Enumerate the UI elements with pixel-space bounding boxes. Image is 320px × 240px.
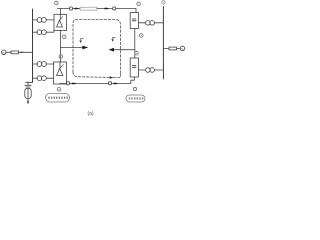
dashed DC loop (control boundary) <box>73 20 121 78</box>
label badge 1 (top of right bus) <box>162 1 165 4</box>
label badge 9 (above U3) <box>137 2 141 6</box>
transformer T3 (left lower branch 1) <box>33 62 54 67</box>
converter U1 (left upper box) <box>54 14 67 30</box>
arrow P1 (left power-flow arrow) <box>61 46 89 50</box>
AC source G2 (right) <box>180 46 185 51</box>
label badge 3 (above U1) <box>55 1 59 5</box>
wire: DC top line riser from U1 <box>57 9 69 15</box>
label badge 10 (below U3) <box>140 34 144 38</box>
label badge 7 (above left control device) <box>57 88 61 92</box>
breaker box S2 (right source) <box>169 47 177 50</box>
arrowhead on dashed loop (bottom) <box>110 76 114 78</box>
label badge 2 (below U1) <box>62 35 66 39</box>
caption (a) <box>87 111 93 117</box>
wire: series link between U3 and U4 <box>134 29 136 59</box>
wire: DC bottom line from U2 <box>60 83 66 86</box>
label badge 8 (above right control device) <box>133 87 136 90</box>
transformer T5 (right upper branch) <box>139 21 164 26</box>
wire: DC top line to converter U3 <box>116 9 136 13</box>
label badge 6 (above U4) <box>135 51 139 55</box>
node N1 (circle on DC top line) <box>69 7 72 10</box>
wire: series link between U1 and U2 <box>60 31 62 63</box>
transformer T4 (left lower branch 2) <box>33 76 54 81</box>
wire left source to bus B1 <box>6 51 32 53</box>
AC source G1 (left) <box>2 50 7 55</box>
hook arrow H1 (left dashed branch) <box>80 38 84 42</box>
bus B2 (right AC bus) <box>162 7 164 80</box>
wire right source to bus B2 <box>163 48 180 50</box>
breaker box S1 (left source) <box>11 51 19 54</box>
transformer T6 (right lower branch) <box>139 68 164 73</box>
node N4 (circle on DC bottom line) <box>108 82 111 85</box>
transformer T1 (left upper branch 1) <box>33 18 55 23</box>
svg-text:(a): (a) <box>87 111 93 117</box>
junction dot + arrow A4 (DC bottom line) <box>112 83 131 85</box>
control device box CD2 (right stadium) <box>126 95 145 102</box>
converter U2 (left lower box) <box>54 62 67 84</box>
converter U3 (right upper box) <box>130 13 138 29</box>
surge arrester MOA (below left bus) <box>25 82 33 104</box>
node N2 (circle on DC top line) <box>113 7 116 10</box>
junction dot + arrow A3 (DC bottom line) <box>70 83 109 85</box>
label badge 11 (above U2) <box>59 55 63 59</box>
converter U4 (right lower box) <box>130 58 138 77</box>
DC smoothing reactor L1 (thin rect on top line) <box>80 7 97 10</box>
junction dot + arrow A1 (DC top line) <box>73 8 80 10</box>
arrow P2 (right power-flow arrow) <box>109 48 135 52</box>
node N3 (circle on DC bottom line) <box>66 82 69 85</box>
control device box CD1 (left stadium) <box>46 94 70 103</box>
hook arrow H2 (right dashed branch) <box>112 37 116 41</box>
transformer T2 (left upper branch 2) <box>33 30 55 35</box>
junction dot + arrow A2 (DC top line) <box>97 8 113 10</box>
bus B1 (left AC bus) <box>32 9 34 82</box>
wire: DC bottom line step up to U4 <box>131 77 135 84</box>
